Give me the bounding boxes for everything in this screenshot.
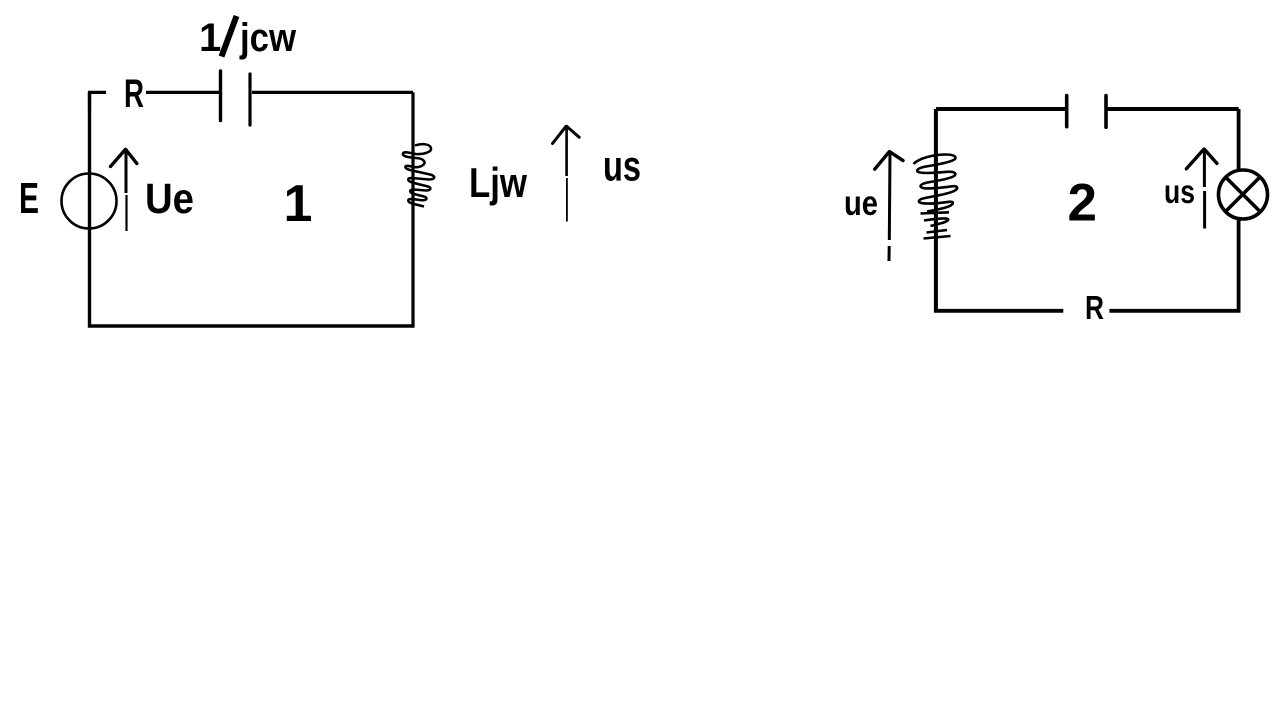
wire: circuit 2 bottom right of R (1109, 309, 1240, 313)
inductor Ljw (scribble coil on right wire) (403, 144, 434, 206)
svg-text:R: R (1085, 289, 1104, 326)
wire: circuit 1 top wire from capacitor to top-right corner (252, 91, 413, 94)
wire: circuit 2 top wire left of capacitor (936, 107, 1065, 111)
svg-text:Ljw: Ljw (469, 159, 527, 206)
svg-text:us: us (1164, 173, 1195, 210)
wire: circuit 2 bottom left of R (934, 309, 1063, 313)
svg-text:Ue: Ue (145, 175, 194, 223)
wire: circuit 2 right side below lamp (1237, 219, 1241, 313)
svg-text:ue: ue (844, 184, 878, 223)
svg-text:jcw: jcw (239, 16, 297, 60)
svg-text:us: us (603, 142, 641, 190)
wire: circuit 2 right side above lamp (1237, 109, 1241, 171)
svg-text:1: 1 (199, 16, 221, 60)
arrow us (circuit 1 output voltage arrow) (553, 126, 580, 221)
arrow Ue (voltage arrow) (111, 150, 137, 232)
svg-text:E: E (19, 174, 39, 223)
capacitor left plate (circuit 2) (1065, 96, 1069, 127)
arrow ue (circuit 2 input voltage arrow) (875, 152, 903, 261)
lamp (circle with X) (1219, 170, 1268, 219)
wire: circuit 1 top-left corner stub (90, 92, 107, 110)
svg-text:1: 1 (284, 175, 313, 233)
arrow us (circuit 2 output voltage arrow) (1186, 149, 1217, 228)
source E (circle on left wire) (62, 174, 117, 229)
wire: circuit 1 left side (88, 92, 91, 327)
wire: circuit 1 right side (411, 92, 414, 327)
svg-text:R: R (124, 72, 144, 116)
capacitor 1/jcw left plate (219, 71, 222, 121)
wire: circuit 2 top wire right of capacitor (1108, 107, 1239, 111)
wire: circuit 1 bottom (88, 324, 415, 328)
inductor (scribble coil on circuit 2 left wire) (914, 155, 958, 239)
capacitor right plate (circuit 2) (1104, 96, 1108, 128)
wire: circuit 2 left side (934, 109, 938, 313)
svg-text:2: 2 (1068, 174, 1097, 233)
wire: circuit 1 top wire from R to capacitor (146, 91, 219, 94)
capacitor 1/jcw right plate (248, 74, 251, 125)
